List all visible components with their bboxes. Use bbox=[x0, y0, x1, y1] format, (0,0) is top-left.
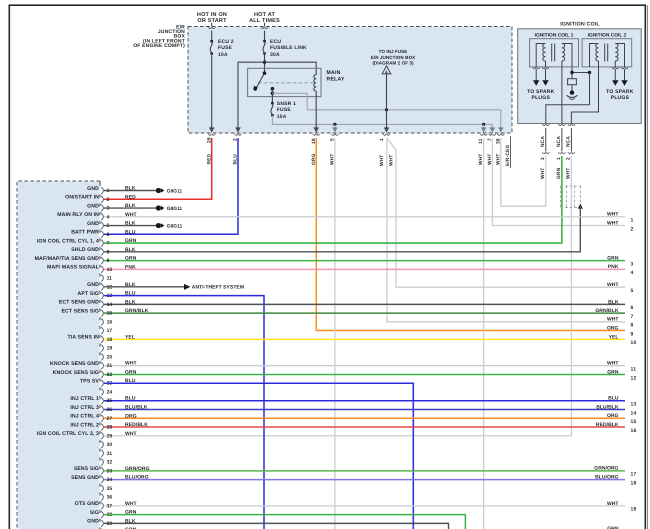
svg-text:9: 9 bbox=[631, 331, 634, 337]
ECU pin 28 row bbox=[70, 422, 625, 434]
svg-text:9: 9 bbox=[107, 258, 110, 264]
svg-text:GRN: GRN bbox=[556, 167, 562, 179]
ground G8G11 (pin 3) bbox=[104, 205, 183, 211]
svg-text:19: 19 bbox=[631, 507, 637, 513]
svg-text:26: 26 bbox=[107, 407, 113, 413]
ECU pin 38 row bbox=[90, 510, 137, 522]
svg-text:IGN COIL CTRL CYL 2, 3: IGN COIL CTRL CYL 2, 3 bbox=[37, 431, 99, 437]
ECU pin 23 row bbox=[80, 378, 136, 390]
svg-text:14: 14 bbox=[631, 410, 637, 416]
ECU pin 3 row bbox=[87, 203, 136, 215]
svg-text:MAP/ MASS SIGNAL: MAP/ MASS SIGNAL bbox=[47, 265, 100, 271]
svg-text:FUSE: FUSE bbox=[218, 45, 233, 51]
svg-text:ECT SENS SIG: ECT SENS SIG bbox=[61, 308, 99, 314]
svg-text:GRN/BLK: GRN/BLK bbox=[595, 308, 618, 314]
E/R junction box label bbox=[133, 24, 185, 49]
svg-text:16: 16 bbox=[631, 428, 637, 434]
svg-text:1: 1 bbox=[631, 218, 634, 224]
ECU pin 29 row bbox=[37, 431, 137, 443]
ECU pin 21 row bbox=[50, 361, 625, 373]
ECU pin 6 row bbox=[71, 229, 136, 241]
svg-text:WHT: WHT bbox=[389, 154, 395, 166]
right connector pin 11 (WHT) bbox=[607, 361, 636, 373]
svg-text:INJ CTRL 4: INJ CTRL 4 bbox=[70, 414, 99, 420]
svg-text:BLU/ORG: BLU/ORG bbox=[125, 475, 149, 481]
svg-text:GND: GND bbox=[87, 203, 99, 209]
svg-text:1: 1 bbox=[556, 157, 562, 160]
ignition coil assembly box bbox=[518, 21, 642, 123]
right connector pin 18 (BLU/ORG) bbox=[595, 474, 636, 486]
svg-text:GRN/BLK: GRN/BLK bbox=[125, 308, 149, 314]
right connector pin 4 (PNK) bbox=[608, 264, 634, 276]
svg-text:WHT: WHT bbox=[125, 431, 137, 437]
svg-text:GRN: GRN bbox=[607, 255, 619, 261]
svg-text:GND: GND bbox=[87, 282, 99, 288]
svg-text:35: 35 bbox=[107, 486, 113, 492]
wire WHT: junction pin 11 down (long) bbox=[483, 138, 485, 529]
svg-text:13: 13 bbox=[631, 402, 637, 408]
svg-text:ECT SENS GND: ECT SENS GND bbox=[59, 300, 99, 306]
svg-text:BLK: BLK bbox=[125, 247, 136, 253]
ECU pin 26 row bbox=[70, 405, 625, 417]
svg-text:ON/START IN: ON/START IN bbox=[65, 195, 99, 201]
right connector pin 20 (GRN) bbox=[607, 526, 619, 529]
wire BLK: shield drain to ECU pin 8 (SHLD GND) bbox=[104, 204, 583, 252]
node: SNSR1 fuse output rail bbox=[272, 115, 492, 126]
wire: coil1 primary bottom to coil pin 1 bbox=[558, 67, 565, 126]
svg-text:WHT: WHT bbox=[607, 212, 619, 218]
svg-text:WHT: WHT bbox=[125, 501, 137, 507]
power feed: HOT IN ON OR START bbox=[197, 12, 227, 29]
wire: rail to pin 11 exit bbox=[481, 124, 487, 132]
svg-text:ORG: ORG bbox=[125, 413, 137, 419]
svg-text:10: 10 bbox=[631, 340, 637, 346]
svg-text:GRN: GRN bbox=[125, 369, 137, 375]
svg-text:KNOCK SENS SIG: KNOCK SENS SIG bbox=[53, 370, 99, 376]
right connector pin 17 (GRN/ORG) bbox=[594, 466, 636, 478]
ignition coil 1 core bbox=[552, 44, 555, 62]
wire WHT: junction pin 5 down (sensor feed) bbox=[334, 138, 336, 529]
svg-text:BLK: BLK bbox=[608, 299, 619, 305]
svg-text:BLK: BLK bbox=[125, 299, 136, 305]
svg-text:BLU: BLU bbox=[125, 396, 136, 402]
svg-text:GRN: GRN bbox=[125, 238, 137, 244]
svg-text:11: 11 bbox=[631, 367, 637, 373]
svg-text:GRN: GRN bbox=[125, 256, 137, 262]
wire WHT: junction pin 7 to right row 2 bbox=[492, 138, 625, 226]
wire WHT: junction pin 38 to ignition coil pin 3 bbox=[501, 138, 546, 206]
svg-text:PNK: PNK bbox=[125, 264, 136, 270]
connector designation E/R-CEG bbox=[505, 136, 511, 168]
junction box pin 38 (WHT) bbox=[495, 134, 504, 165]
svg-text:NCA: NCA bbox=[556, 136, 562, 147]
svg-text:24: 24 bbox=[107, 389, 113, 395]
svg-text:MAIN RLY ON IN: MAIN RLY ON IN bbox=[57, 212, 99, 218]
svg-text:20: 20 bbox=[107, 354, 113, 360]
svg-text:FUSE: FUSE bbox=[277, 107, 292, 113]
svg-text:17: 17 bbox=[631, 472, 637, 478]
svg-text:ORG: ORG bbox=[607, 325, 619, 331]
svg-text:IGN COIL CTRL CYL 1, 4: IGN COIL CTRL CYL 1, 4 bbox=[37, 238, 99, 244]
ECU pin 16 row bbox=[100, 319, 112, 330]
power feed: HOT AT ALL TIMES bbox=[249, 12, 280, 29]
svg-text:WHT: WHT bbox=[607, 282, 619, 288]
wire WHT: junction pin 1b down to right row 5 bbox=[388, 139, 626, 287]
svg-text:BLU: BLU bbox=[125, 229, 136, 235]
svg-text:APT SIG: APT SIG bbox=[78, 291, 99, 297]
svg-text:KNOCK SENS GND: KNOCK SENS GND bbox=[50, 361, 99, 367]
ignition coil 2 primary winding bbox=[590, 44, 599, 67]
fuse ECU FUSIBLE LINK 30A bbox=[263, 39, 307, 58]
ECU pin 30 row bbox=[100, 441, 112, 452]
svg-text:28: 28 bbox=[107, 425, 113, 431]
svg-text:2: 2 bbox=[107, 197, 110, 203]
svg-text:MAF/MAP/TIA SENS GND: MAF/MAP/TIA SENS GND bbox=[35, 256, 99, 262]
ECU pin 19 row bbox=[100, 345, 112, 356]
svg-text:18: 18 bbox=[107, 337, 113, 343]
svg-text:PLUGS: PLUGS bbox=[532, 95, 551, 101]
svg-text:WHT: WHT bbox=[566, 167, 572, 179]
svg-text:8: 8 bbox=[107, 249, 110, 255]
wire WHT: junction pin 1a down to right row 8 bbox=[387, 138, 625, 322]
svg-text:G8G11: G8G11 bbox=[167, 206, 183, 212]
fuse ECU 2 FUSE 10A bbox=[210, 39, 234, 58]
fuse SNSR 1 FUSE 10A bbox=[271, 101, 296, 120]
ignition coil 2 secondary winding bbox=[612, 44, 628, 69]
ECU pin 12 row bbox=[87, 282, 136, 294]
svg-text:2: 2 bbox=[566, 157, 572, 160]
svg-text:NCA: NCA bbox=[566, 136, 572, 147]
ECU pin 17 row bbox=[100, 327, 112, 338]
svg-text:6: 6 bbox=[107, 232, 110, 238]
wire: feed to ECU fusible link bbox=[264, 31, 266, 42]
svg-text:WHT: WHT bbox=[607, 317, 619, 323]
wire: triangle A to pin 1 exit bbox=[384, 74, 390, 133]
svg-text:36: 36 bbox=[107, 495, 113, 501]
coil connector pin 3 bbox=[540, 128, 550, 179]
svg-text:YEL: YEL bbox=[609, 334, 619, 340]
off-page reference: TO INJ FUSE (triangle A) bbox=[371, 49, 416, 74]
ECU pin 37 row bbox=[75, 501, 625, 513]
svg-text:WHT: WHT bbox=[607, 501, 619, 507]
wire GRN: ECU pin 38 SIG down bbox=[104, 515, 465, 529]
wire ORG: junction pin 18 down and right to pin 9 of right connector bbox=[316, 138, 625, 331]
svg-text:GND: GND bbox=[87, 519, 99, 525]
svg-text:GND: GND bbox=[87, 186, 99, 192]
svg-text:MAIN: MAIN bbox=[327, 70, 341, 76]
svg-text:BATT PWR: BATT PWR bbox=[71, 230, 99, 236]
svg-text:7: 7 bbox=[107, 241, 110, 247]
spark plug arrows coil 2 bbox=[606, 69, 634, 101]
ECU pin 25 row bbox=[70, 396, 625, 408]
junction box pin 1 (two WHT wires) bbox=[379, 134, 394, 166]
right connector pin 3 (GRN) bbox=[607, 255, 633, 267]
svg-text:30: 30 bbox=[107, 442, 113, 448]
ECU pin 7 row bbox=[37, 238, 137, 250]
ECU pin 27 row bbox=[70, 413, 625, 425]
ignition coil 2 box bbox=[582, 33, 632, 67]
svg-text:19: 19 bbox=[107, 346, 113, 352]
svg-text:4: 4 bbox=[107, 214, 110, 220]
svg-text:ANTI-THEFT SYSTEM: ANTI-THEFT SYSTEM bbox=[192, 285, 244, 291]
svg-text:31: 31 bbox=[107, 451, 113, 457]
ECU pin 14 row bbox=[59, 299, 625, 311]
wire WHT: ignition coil pin 2 to ECU pin 29 bbox=[104, 156, 571, 436]
wire: coil2 primary bottom to coil pin 2 bbox=[568, 67, 599, 126]
svg-text:INJ CTRL 1: INJ CTRL 1 bbox=[70, 396, 99, 402]
svg-text:BLU/BLK: BLU/BLK bbox=[125, 405, 148, 411]
junction box pin 29 (RED) bbox=[206, 134, 215, 165]
svg-text:OF ENGINE COMPT): OF ENGINE COMPT) bbox=[133, 43, 185, 49]
svg-text:WHT: WHT bbox=[607, 361, 619, 367]
coil connector pin 2 bbox=[566, 128, 576, 179]
junction box pin 7 (WHT) bbox=[487, 134, 496, 165]
ECU pin 24 row bbox=[100, 389, 112, 400]
right connector pin 9 (ORG) bbox=[607, 325, 634, 337]
ECU pin 11 row bbox=[100, 275, 112, 286]
svg-text:WHT: WHT bbox=[540, 167, 546, 179]
svg-text:SENS GND: SENS GND bbox=[71, 475, 99, 481]
main relay coil bbox=[314, 75, 316, 91]
svg-text:NCA: NCA bbox=[540, 136, 546, 147]
svg-text:OTS GND: OTS GND bbox=[75, 501, 99, 507]
svg-text:ORG: ORG bbox=[607, 413, 619, 419]
ground G8G11 (pin 1) bbox=[104, 188, 183, 194]
right connector pin 19 (WHT) bbox=[607, 501, 637, 513]
svg-text:WHT: WHT bbox=[125, 361, 137, 367]
right connector pin 10 (YEL) bbox=[609, 334, 637, 346]
node: relay switched output rail bbox=[272, 93, 500, 111]
svg-text:37: 37 bbox=[107, 503, 113, 509]
ECU pin 4 row bbox=[57, 212, 625, 224]
wire BLU: junction pin 2 to ECU pin 6 bbox=[104, 138, 238, 234]
svg-text:BLU/ORG: BLU/ORG bbox=[595, 474, 618, 480]
wire: feed to ECU 2 fuse bbox=[211, 31, 213, 42]
right connector pin 1 (WHT) bbox=[607, 212, 634, 224]
wire: ECU2 fuse to pin 29 exit bbox=[209, 54, 215, 133]
svg-text:BLU/BLK: BLU/BLK bbox=[596, 404, 619, 410]
wire BLU: ECU pin 23 TPS SV down bbox=[104, 383, 413, 529]
ECU pin 13 row bbox=[78, 291, 136, 303]
wire RED: fuse ECU2 to ECU pin 2 bbox=[104, 138, 212, 199]
main relay box bbox=[248, 68, 345, 96]
svg-text:TPS SV: TPS SV bbox=[80, 379, 99, 385]
ECU pin 18 row bbox=[68, 334, 625, 346]
svg-text:GND: GND bbox=[87, 221, 99, 227]
wire: rail to pin 7 exit bbox=[490, 124, 496, 132]
svg-text:BLU: BLU bbox=[608, 396, 619, 402]
ECU pin 5 row bbox=[87, 221, 136, 233]
svg-text:WHT: WHT bbox=[379, 154, 385, 166]
svg-text:SIG: SIG bbox=[90, 510, 99, 516]
right connector pin 13 (BLU) bbox=[608, 396, 636, 408]
svg-text:6: 6 bbox=[631, 305, 634, 311]
svg-text:(DIAGRAM 2 OF 3): (DIAGRAM 2 OF 3) bbox=[372, 61, 414, 66]
svg-text:RELAY: RELAY bbox=[327, 76, 345, 82]
ignition coil 1 secondary winding bbox=[533, 44, 550, 69]
svg-text:INJ CTRL 2: INJ CTRL 2 bbox=[70, 422, 99, 428]
svg-text:25: 25 bbox=[107, 398, 113, 404]
wire: relay coil return to pin 18 exit bbox=[313, 91, 319, 133]
ECU pin 34 row bbox=[71, 475, 625, 487]
svg-text:YEL: YEL bbox=[125, 334, 135, 340]
node: fusible link output junction bbox=[263, 54, 266, 74]
ECU pin 9 row bbox=[35, 256, 625, 268]
wire: rail to pin 38 exit bbox=[498, 110, 504, 133]
ECU pin 39 row bbox=[87, 518, 136, 529]
ignition coil 1 box bbox=[530, 33, 579, 67]
svg-text:GRN: GRN bbox=[607, 369, 619, 375]
svg-text:G8G11: G8G11 bbox=[167, 223, 183, 229]
right connector pin 7 (GRN/BLK) bbox=[595, 308, 633, 320]
svg-text:TO INJ FUSE: TO INJ FUSE bbox=[379, 49, 408, 54]
svg-text:SHLD GND: SHLD GND bbox=[71, 247, 99, 253]
right connector pin 8 (WHT) bbox=[607, 317, 634, 329]
svg-text:INJ CTRL 3: INJ CTRL 3 bbox=[70, 405, 99, 411]
right connector pin 2 (WHT) bbox=[607, 220, 634, 232]
svg-text:E/R JUNCTION BOX: E/R JUNCTION BOX bbox=[371, 55, 416, 60]
junction box pin 2 (BLU) bbox=[233, 134, 242, 165]
svg-text:IGNITION COIL 1: IGNITION COIL 1 bbox=[535, 33, 574, 39]
ECU pin 15 row bbox=[61, 308, 625, 320]
wire BLU: ECU pin 13 APT SIG down bbox=[104, 296, 264, 529]
junction box pin 11 (WHT) bbox=[478, 134, 487, 165]
svg-text:RED/BLK: RED/BLK bbox=[596, 422, 619, 428]
svg-text:3: 3 bbox=[540, 157, 546, 160]
svg-text:15: 15 bbox=[631, 419, 637, 425]
svg-text:TIA SENS IN: TIA SENS IN bbox=[68, 335, 100, 341]
wire GRN: ignition coil pin 1 to ECU pin 7 bbox=[104, 156, 562, 243]
right connector pin 12 (GRN) bbox=[607, 369, 636, 381]
ECU pin 8 row bbox=[71, 247, 136, 259]
ECU connector (dashed enclosure) bbox=[17, 181, 100, 529]
spark plug arrows coil 1 bbox=[527, 69, 555, 101]
svg-text:27: 27 bbox=[107, 416, 113, 422]
svg-text:SENS SIG: SENS SIG bbox=[74, 466, 99, 472]
wire: rail to pin 5 exit bbox=[332, 124, 338, 132]
ignition coil 1 primary winding bbox=[562, 44, 572, 67]
ECU pin 31 row bbox=[100, 450, 112, 461]
shield (dashed) around coil control wires bbox=[561, 186, 581, 208]
right connector pin 15 (ORG) bbox=[607, 413, 637, 425]
ground (coil pack) bbox=[567, 90, 578, 99]
junction box pin 18 (ORG) bbox=[311, 134, 320, 165]
svg-text:RED: RED bbox=[125, 194, 136, 200]
ECU pin 1 row bbox=[87, 186, 136, 198]
svg-text:30A: 30A bbox=[270, 52, 280, 58]
svg-text:2: 2 bbox=[631, 226, 634, 232]
right connector pin 5 (WHT) bbox=[607, 282, 634, 294]
junction box pin 5 (WHT) bbox=[330, 134, 339, 165]
svg-text:16: 16 bbox=[107, 319, 113, 325]
svg-text:32: 32 bbox=[107, 460, 113, 466]
ignition coil 2 core bbox=[605, 44, 608, 62]
svg-text:4: 4 bbox=[631, 270, 634, 276]
ECU pin 32 row bbox=[100, 459, 112, 470]
svg-text:IGNITION COIL: IGNITION COIL bbox=[560, 21, 600, 27]
noise capacitor bbox=[568, 79, 577, 91]
svg-text:WHT: WHT bbox=[607, 220, 619, 226]
svg-text:12: 12 bbox=[631, 375, 637, 381]
svg-text:7: 7 bbox=[631, 314, 634, 320]
wire: branch to main relay coil bbox=[265, 62, 317, 74]
ECU pin 36 row bbox=[100, 494, 112, 505]
svg-text:RED/BLK: RED/BLK bbox=[125, 422, 148, 428]
svg-text:GRN/ORG: GRN/ORG bbox=[125, 466, 150, 472]
svg-text:G8G11: G8G11 bbox=[167, 188, 183, 194]
wire: branch to pin 2 (BATT) bbox=[235, 62, 264, 132]
svg-text:33: 33 bbox=[107, 468, 113, 474]
svg-text:10: 10 bbox=[107, 267, 113, 273]
svg-text:14: 14 bbox=[107, 302, 113, 308]
svg-text:A: A bbox=[385, 70, 388, 74]
svg-text:21: 21 bbox=[107, 363, 113, 369]
ECU pin 22 row bbox=[53, 369, 625, 381]
svg-text:3: 3 bbox=[631, 261, 634, 267]
svg-text:PNK: PNK bbox=[608, 264, 619, 270]
ECU pin 40 row bbox=[100, 527, 137, 529]
svg-text:29: 29 bbox=[107, 433, 113, 439]
coil connector pin 1 bbox=[556, 128, 566, 179]
svg-text:18: 18 bbox=[631, 480, 637, 486]
ECU pin 2 row bbox=[65, 194, 136, 206]
svg-text:5: 5 bbox=[631, 288, 634, 294]
svg-text:IGNITION COIL 2: IGNITION COIL 2 bbox=[588, 33, 627, 39]
svg-text:8: 8 bbox=[631, 323, 634, 329]
right connector pin 6 (BLK) bbox=[608, 299, 633, 311]
svg-text:10A: 10A bbox=[277, 114, 287, 120]
ECU pin 35 row bbox=[100, 485, 112, 496]
svg-text:1: 1 bbox=[379, 138, 385, 141]
ECU pin 20 row bbox=[100, 354, 112, 365]
svg-text:WHT: WHT bbox=[125, 212, 137, 218]
svg-text:E/R-CEG: E/R-CEG bbox=[505, 145, 511, 166]
svg-text:15: 15 bbox=[107, 311, 113, 317]
node: coil primary common bbox=[570, 67, 591, 79]
E/R junction box (dashed enclosure) bbox=[188, 27, 512, 134]
svg-text:22: 22 bbox=[107, 372, 113, 378]
svg-text:PLUGS: PLUGS bbox=[611, 95, 630, 101]
ECU pin 33 row bbox=[74, 466, 625, 478]
wire: coil2 primary top to coil pin 3 bbox=[542, 73, 589, 126]
svg-text:11: 11 bbox=[107, 276, 113, 282]
svg-text:10A: 10A bbox=[218, 52, 228, 58]
wire BLK: ECU pin 39 GND down bbox=[104, 523, 449, 529]
main relay switch bbox=[253, 71, 274, 103]
right connector pin 16 (RED/BLK) bbox=[596, 422, 637, 434]
svg-text:17: 17 bbox=[107, 328, 113, 334]
svg-text:34: 34 bbox=[107, 477, 113, 483]
ECU pin 10 row bbox=[47, 264, 625, 276]
main relay mechanical link (dashed) bbox=[258, 82, 313, 84]
svg-text:GRN/ORG: GRN/ORG bbox=[594, 466, 618, 472]
off-page reference: ANTI-THEFT SYSTEM bbox=[104, 284, 244, 291]
right connector pin 14 (BLU/BLK) bbox=[596, 404, 636, 416]
svg-text:FUSIBLE LINK: FUSIBLE LINK bbox=[270, 45, 307, 51]
ground G8G11 (pin 5) bbox=[104, 223, 183, 229]
